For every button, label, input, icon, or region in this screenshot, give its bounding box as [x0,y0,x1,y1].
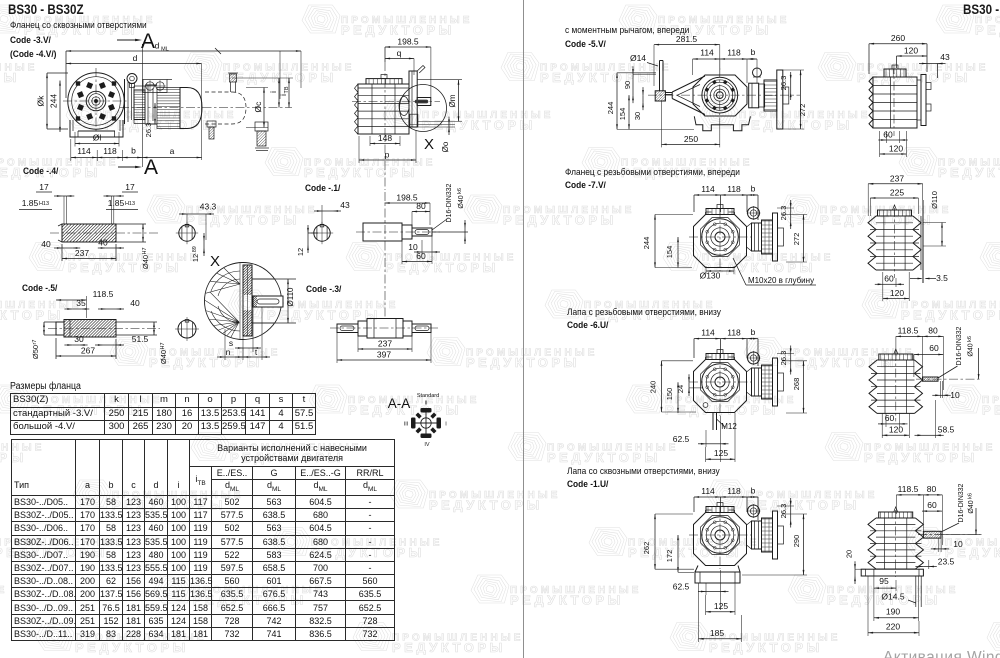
dimension 120 [897,55,928,57]
dimension 272 [803,215,805,263]
dimension p [359,159,416,161]
top cap [366,79,402,84]
svg-text:D16-DIN332: D16-DIN332 [446,183,453,222]
svg-text:M10x20 в глубину: M10x20 в глубину [748,276,814,285]
torque arm rod [659,61,661,91]
dimension 125 [706,458,735,460]
dimension i [232,77,293,79]
finned housing side view [868,216,876,270]
svg-text:b: b [751,327,756,337]
dashed longer-motor variant outline [205,91,232,93]
svg-text:Ø40: Ø40 [159,350,168,364]
dimension 20 [854,569,856,576]
shaft slot piece [253,296,283,307]
svg-text:Ø14: Ø14 [630,53,646,63]
bolt face view with 43 [314,225,330,241]
svg-text:b: b [751,486,756,496]
dimension Øk [46,73,48,129]
left stub with key [337,324,358,333]
svg-text:290: 290 [792,535,801,548]
svg-text:24: 24 [676,385,685,393]
gearbox rear view [869,77,873,128]
dimension 40 right [106,247,116,249]
mounting bracket [143,80,167,93]
dimension 51.5 [103,344,116,346]
rod clamp [655,91,665,101]
mounting foot [70,120,123,137]
svg-text:260: 260 [891,33,905,43]
svg-text:40: 40 [41,239,51,249]
dimension iTB [288,78,290,108]
svg-text:272: 272 [792,233,801,246]
svg-text:Øk: Øk [36,95,46,107]
dimension 154 [628,95,630,129]
svg-text:Ø40: Ø40 [458,195,465,208]
dimension 35 [72,308,81,310]
svg-text:62.5: 62.5 [673,434,690,444]
svg-text:60: 60 [883,130,893,140]
hollow shaft body [62,224,116,242]
detail X magnified view [205,263,282,340]
top cap [879,354,913,360]
svg-text:I: I [445,422,447,428]
svg-text:118.5: 118.5 [93,289,114,299]
flange plane plate [922,200,924,283]
svg-text:80: 80 [928,326,938,336]
dimension Ø40 H7 [153,322,155,335]
dimension Ø50 r7 [43,322,45,335]
svg-text:Ø50: Ø50 [31,345,40,359]
svg-text:Ø40: Ø40 [968,343,975,356]
svg-text:244: 244 [642,237,651,250]
dimension 237 [868,183,923,185]
flange table caption [10,381,81,392]
svg-text:1.85: 1.85 [22,198,39,208]
dimension Ø110 [923,222,946,224]
svg-text:Ø130: Ø130 [700,271,721,281]
dimension 12.89 [203,241,205,248]
svg-text:114: 114 [701,486,715,496]
gearbox housing octagon front view [694,513,747,566]
code -.4 label [23,166,58,177]
svg-text:Øo: Øo [441,141,450,152]
svg-text:17: 17 [125,182,135,192]
pinion rack [759,84,765,107]
keyed bore face view [178,320,196,338]
dimension 60 [886,139,899,141]
svg-text:H7: H7 [142,247,148,254]
svg-text:262: 262 [642,542,651,555]
svg-text:60: 60 [884,274,894,284]
dimension 60 [922,510,942,512]
right step [403,321,412,336]
end plate [773,511,778,559]
svg-text:10: 10 [953,539,963,549]
svg-text:.89: .89 [192,246,198,254]
svg-text:118.5: 118.5 [898,484,919,494]
foot plate [861,569,923,576]
svg-text:225: 225 [890,188,904,198]
dimension Ø130 [706,270,734,272]
svg-text:114: 114 [701,184,715,194]
svg-text:80: 80 [927,484,937,494]
dimension Ø40 k6 arrow [978,348,980,379]
dimension 190 [874,617,919,619]
housing skirt and feet [694,116,750,131]
svg-text:Øl: Øl [93,133,102,143]
svg-text:237: 237 [890,173,904,183]
svg-text:237: 237 [378,339,392,349]
svg-text:Øm: Øm [448,94,457,107]
gearbox housing ribs [358,84,409,134]
svg-text:80: 80 [416,201,426,211]
dimensions 114 118 b [694,338,758,340]
svg-text:150: 150 [665,388,674,401]
dimension 40 left [62,247,72,249]
rear eyebolt detail [230,74,237,82]
arm triangle [672,76,705,115]
svg-text:198.5: 198.5 [397,37,419,47]
section torque arm [565,25,689,36]
gear unit circles [702,77,738,113]
dimension 40 [106,308,116,310]
output flange face view [68,73,124,129]
mounting foot [695,566,698,573]
windows activation watermark [883,649,1000,658]
svg-text:d: d [155,41,160,51]
thermal cap [753,68,762,77]
dimension 272 [800,70,802,129]
flange dimensions table [10,393,316,435]
dimension d ML [66,50,301,52]
svg-text:26.3: 26.3 [779,76,788,91]
svg-text:b: b [131,146,136,156]
M12 stud [703,403,708,408]
svg-text:237: 237 [75,248,89,258]
top cap [706,209,734,215]
drain bolt [207,121,216,127]
coupling and pinion rack [752,223,762,251]
svg-text:A: A [144,156,158,179]
coupling [749,83,759,108]
svg-text:a: a [170,146,175,156]
dimensions 114 118 b [693,58,757,60]
section arrow A bottom [118,166,138,168]
svg-text:p: p [385,150,390,160]
svg-text:120: 120 [889,424,903,434]
keyed bore face view (43.3) [179,225,195,241]
svg-text:r7: r7 [32,340,38,345]
svg-text:190: 190 [886,607,900,617]
dimension 30 [72,344,79,346]
svg-text:120: 120 [890,288,904,298]
left step [358,321,367,336]
dimension 60 [883,283,896,285]
svg-text:397: 397 [377,350,391,360]
svg-text:185: 185 [710,628,724,638]
gear unit housing [693,75,747,116]
dimension Øc [246,87,268,89]
svg-text:Ø14.5: Ø14.5 [881,592,904,602]
coupling and pinion rack [752,521,762,549]
dimension 150 [677,382,679,413]
svg-text:TB: TB [284,86,290,93]
dimension 26.3 [790,208,792,221]
page title left [8,1,84,17]
end plate [773,213,778,261]
dimension 90 [632,74,634,95]
svg-text:k6: k6 [967,336,973,342]
dimension 267 [56,355,116,357]
svg-text:D16-DIN332: D16-DIN332 [958,483,965,522]
svg-text:H13: H13 [39,201,49,207]
svg-text:40: 40 [130,298,140,308]
motor variants table [11,439,395,641]
end plate [777,70,783,129]
dimension 26.3 [790,80,792,92]
flange corner tabs [76,81,80,85]
code -.3 label [306,284,341,295]
svg-text:35: 35 [76,298,86,308]
svg-text:b: b [751,47,756,57]
svg-text:i: i [269,91,278,93]
dimension 26.3 [154,103,156,124]
dimensions 118.5 80 [896,335,944,337]
centerline [120,107,292,109]
svg-text:12: 12 [296,248,305,256]
end plate [773,358,778,406]
dimension 220 [868,632,919,634]
svg-text:43: 43 [940,52,950,62]
mounting flange plate [409,71,417,127]
section label flange through holes [10,20,147,31]
svg-text:60: 60 [927,500,937,510]
svg-text:Ø110: Ø110 [930,191,939,209]
svg-text:Standard: Standard [417,393,439,399]
dimension 43.3 [186,214,188,226]
condensate drain detail [255,122,268,131]
svg-text:b: b [751,184,756,194]
dimension 80 [412,211,430,213]
top cap [878,210,912,216]
dimension 125 [706,611,735,613]
right stub with key [412,324,431,333]
svg-text:20: 20 [845,550,854,558]
dimension 244 [59,81,61,133]
svg-text:Ø110: Ø110 [286,287,295,307]
dimension 120 bottom [880,153,907,155]
dimension Ø110 [252,278,296,280]
svg-text:q: q [397,48,402,58]
svg-text:244: 244 [49,94,59,108]
svg-text:26.3: 26.3 [779,351,788,366]
dimension 12 [307,233,309,245]
page divider line [523,0,525,658]
section foot through [567,466,720,477]
svg-text:272: 272 [798,104,807,117]
svg-text:1.85: 1.85 [108,198,125,208]
adapter housing [145,84,157,86]
svg-text:120: 120 [889,144,903,154]
svg-text:12: 12 [191,254,200,262]
dimension 237 [62,258,116,260]
svg-text:114: 114 [700,48,714,58]
dimensions 114 118 b [694,496,758,498]
dimension 397 [337,359,431,361]
dimension 10 [940,394,942,396]
finned housing side view [869,360,877,413]
svg-text:30: 30 [633,112,642,120]
dimension Øm [417,79,462,81]
svg-text:240: 240 [649,381,658,394]
dimension 225 [870,197,918,199]
output shaft stub [923,531,941,538]
svg-text:X: X [424,136,434,153]
svg-text:114: 114 [701,328,715,338]
svg-text:244: 244 [606,102,615,115]
dimension 250 [662,143,720,145]
svg-text:118.5: 118.5 [898,326,919,336]
output shaft stub [417,98,431,106]
svg-text:250: 250 [684,134,698,144]
dimension 62.5 [706,443,721,445]
section flange threaded [565,167,740,178]
ear screw [748,207,760,219]
bearing circles [702,219,739,256]
svg-text:267: 267 [81,346,95,356]
shaft body [56,322,64,335]
dimension d [66,63,202,65]
dimension 26.3 [790,506,792,520]
svg-text:60: 60 [929,343,939,353]
svg-text:10: 10 [950,390,960,400]
svg-text:III: III [404,422,409,428]
svg-text:43: 43 [340,200,350,210]
dimension 95 [874,587,896,589]
dimension 154 [677,237,679,268]
svg-text:58.5: 58.5 [938,424,955,434]
svg-text:172: 172 [665,550,674,563]
shaft body [363,223,402,241]
section arrow A top [117,39,138,41]
finned housing side view [868,518,876,569]
output plate [921,75,926,126]
dimension 290 [803,514,805,575]
dimension 185 [699,638,742,640]
fan cover [180,88,202,129]
svg-text:125: 125 [714,601,728,611]
dimension 281.5 [654,44,720,46]
dimension 198.5 [385,46,431,48]
dimension 244 [616,73,618,130]
dimension 120 [883,298,909,300]
svg-text:125: 125 [714,448,728,458]
svg-text:H13: H13 [125,201,135,207]
svg-text:198.5: 198.5 [396,193,418,203]
svg-text:IV: IV [424,442,430,448]
svg-text:154: 154 [618,108,627,121]
svg-text:30: 30 [74,334,84,344]
Code -.3 double-ended shaft drawing [384,192,386,318]
flange rim edge [124,79,126,124]
svg-text:17: 17 [39,182,49,192]
svg-text:90: 90 [623,81,632,89]
dimension q [385,58,414,60]
dimension Ø40 H7 [142,224,144,242]
bearing boss ellipse [399,97,409,116]
dimension 240 [661,361,663,412]
dimension 120 bottom [882,434,909,436]
svg-text:118: 118 [103,146,117,156]
dimension 3.5 [910,278,922,280]
page title right [963,1,1000,17]
svg-text:268: 268 [792,378,801,391]
svg-text:II: II [424,401,428,407]
code -.5 label [22,283,57,294]
svg-text:40: 40 [98,238,108,248]
svg-text:A: A [141,30,155,53]
svg-text:Ø40: Ø40 [141,255,150,269]
dimension 244 [654,215,656,268]
output shaft stub [923,377,939,381]
dimensions 114 118 b a [71,157,202,159]
svg-text:95: 95 [879,576,889,586]
ear screw [748,505,760,517]
dimensions 114 118 b [694,194,758,196]
dimension 43 [927,63,938,65]
dimension 26.3 [790,354,792,367]
dimension 148 [370,143,400,145]
dimension 58.5 [923,434,936,436]
svg-text:ML: ML [161,47,169,53]
svg-text:118: 118 [727,48,741,58]
svg-text:118: 118 [727,184,741,194]
svg-text:51.5: 51.5 [132,334,149,344]
gearbox housing octagon front view [694,215,747,268]
svg-text:118: 118 [727,328,741,338]
svg-text:X: X [210,253,220,270]
dimension 260 [869,43,927,45]
svg-text:62.5: 62.5 [673,582,690,592]
dimension 118.5 [56,299,87,301]
dimension 237 [358,348,412,350]
dimension 24 [688,382,690,388]
motor body with cooling fins [157,88,180,129]
svg-text:60: 60 [416,251,426,261]
bearing circles [702,517,739,554]
svg-text:154: 154 [665,246,674,259]
svg-text:118: 118 [727,486,741,496]
svg-text:3.5: 3.5 [936,273,948,283]
lifting eyebolt [127,74,137,84]
dimension 172 [677,535,679,572]
dimension 62.5 [706,591,721,593]
bearing circles [702,364,739,401]
dimension 60 [402,261,432,263]
svg-text:23.5: 23.5 [938,557,955,567]
dimensions 118.5 80 [896,494,942,496]
svg-text:d: d [133,53,138,63]
gearbox housing octagon front view [694,360,747,413]
svg-text:120: 120 [904,46,918,56]
dimension Ø40 k6 arrow [975,508,977,535]
dimension 268 [803,361,805,413]
dimension 17 right [112,195,116,197]
dimension 17 left [62,195,66,197]
dimension 60 [914,354,944,356]
svg-text:148: 148 [378,133,392,143]
svg-text:114: 114 [77,146,91,156]
